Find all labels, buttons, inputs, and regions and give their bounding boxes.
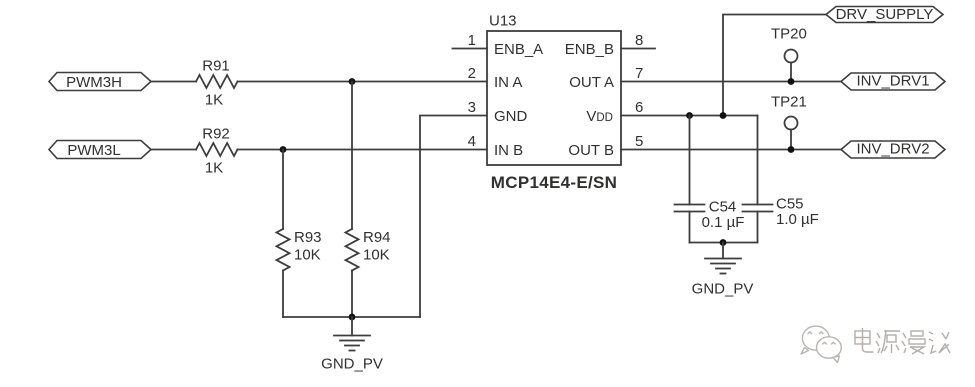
- wire junction to R93: [282, 150, 284, 230]
- test point TP21: [771, 94, 807, 153]
- svg-text:INV_DRV2: INV_DRV2: [856, 141, 929, 158]
- svg-text:1K: 1K: [205, 92, 223, 109]
- pin 7 OUT A: [569, 65, 643, 91]
- svg-text:GND_PV: GND_PV: [692, 281, 754, 298]
- junction on IN A net: [349, 78, 356, 85]
- wire R91 to pin 2: [238, 81, 488, 83]
- pin 1 ENB_A: [453, 32, 544, 58]
- svg-text:R94: R94: [363, 229, 391, 246]
- svg-text:U13: U13: [489, 13, 517, 30]
- wire R92 to pin 4: [238, 149, 488, 151]
- resistor R92: [196, 126, 238, 177]
- svg-text:IN A: IN A: [494, 74, 522, 91]
- flag INV_DRV1: [841, 73, 945, 91]
- junction on ground rail: [349, 314, 356, 321]
- svg-text:TP21: TP21: [771, 94, 807, 111]
- svg-text:DRV_SUPPLY: DRV_SUPPLY: [836, 6, 934, 23]
- ground GND_PV left: [321, 317, 383, 373]
- svg-text:OUT B: OUT B: [568, 142, 614, 159]
- op-amp U13 MCP14E4 driver box: [487, 13, 621, 193]
- svg-text:7: 7: [635, 65, 643, 82]
- svg-text:GND: GND: [494, 108, 528, 125]
- svg-text:2: 2: [468, 65, 476, 82]
- svg-text:10K: 10K: [294, 247, 321, 264]
- svg-text:INV_DRV1: INV_DRV1: [856, 73, 929, 90]
- wire R94 to ground rail: [351, 271, 353, 318]
- svg-text:MCP14E4-E/SN: MCP14E4-E/SN: [491, 173, 617, 192]
- flag PWM3H: [49, 73, 151, 92]
- svg-text:ENB_B: ENB_B: [565, 41, 614, 58]
- svg-text:C55: C55: [776, 196, 804, 213]
- junction on IN B net: [280, 146, 287, 153]
- svg-text:10K: 10K: [363, 247, 390, 264]
- wire OUT A to INV_DRV1: [621, 81, 841, 83]
- pin 4 IN B: [468, 133, 524, 159]
- resistor R91: [196, 58, 238, 109]
- watermark wechat icon: [801, 326, 841, 362]
- svg-text:R92: R92: [202, 126, 230, 143]
- resistor R94: [346, 229, 391, 271]
- svg-text:IN B: IN B: [494, 142, 523, 159]
- svg-text:1.0 µF: 1.0 µF: [776, 211, 819, 228]
- svg-text:1: 1: [468, 32, 476, 49]
- wire capacitor ground rail: [690, 242, 758, 244]
- capacitor C54: [675, 116, 745, 243]
- wire PWM3H to R91: [151, 81, 196, 83]
- svg-text:5: 5: [635, 133, 643, 150]
- svg-text:GND_PV: GND_PV: [321, 356, 383, 373]
- pin 3 GND: [468, 99, 528, 125]
- pin 5 OUT B: [568, 133, 643, 159]
- flag PWM3L: [49, 141, 151, 160]
- pin 8 ENB_B: [565, 32, 655, 58]
- wire ground rail: [283, 316, 420, 318]
- junction capacitor ground rail: [720, 239, 727, 246]
- wire DRV_SUPPLY to VDD: [723, 15, 826, 116]
- svg-text:4: 4: [468, 133, 476, 150]
- wire VDD net: [621, 115, 758, 117]
- svg-text:PWM3L: PWM3L: [67, 142, 120, 159]
- svg-text:6: 6: [635, 99, 643, 116]
- ground GND_PV right: [692, 243, 754, 298]
- svg-text:OUT A: OUT A: [569, 74, 614, 91]
- svg-text:TP20: TP20: [771, 26, 807, 43]
- flag INV_DRV2: [841, 141, 945, 159]
- svg-text:R93: R93: [294, 229, 322, 246]
- wire R93 to ground rail: [282, 271, 284, 318]
- svg-text:0.1 µF: 0.1 µF: [702, 214, 745, 231]
- svg-text:R91: R91: [202, 58, 230, 75]
- svg-text:3: 3: [468, 99, 476, 116]
- pin 2 IN A: [468, 65, 523, 91]
- svg-text:8: 8: [635, 32, 643, 49]
- resistor R93: [277, 229, 322, 271]
- junction DRV_SUPPLY on VDD wire: [720, 112, 727, 119]
- svg-text:C54: C54: [709, 199, 737, 216]
- wire GND pin 3 to ground rail: [420, 116, 487, 318]
- capacitor C55: [743, 116, 819, 243]
- pin 6 VDD: [586, 99, 643, 125]
- watermark text dian-yuan-man-tan: [855, 328, 950, 354]
- svg-text:ENB_A: ENB_A: [494, 41, 543, 58]
- svg-text:1K: 1K: [205, 160, 223, 177]
- wire PWM3L to R92: [151, 149, 196, 151]
- svg-text:PWM3H: PWM3H: [66, 74, 122, 91]
- flag DRV_SUPPLY: [826, 6, 943, 23]
- wire junction to R94: [351, 82, 353, 230]
- junction C54 on VDD wire: [686, 112, 693, 119]
- wire OUT B to INV_DRV2: [621, 149, 841, 151]
- test point TP20: [771, 26, 807, 85]
